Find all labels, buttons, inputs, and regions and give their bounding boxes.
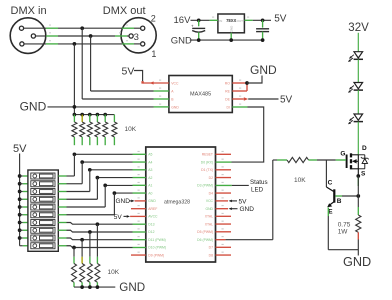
- U1 pin D12 stub: [133, 231, 146, 233]
- wire 5V to U3 VCC: [134, 71, 143, 82]
- svg-text:GND: GND: [119, 281, 145, 294]
- svg-text:1: 1: [151, 49, 156, 59]
- label 5V regulator output: [274, 14, 287, 25]
- transistor Q2 base bar: [333, 189, 335, 202]
- junction pulldown bus 3: [88, 113, 92, 117]
- junction D10 pulldown: [72, 246, 76, 250]
- svg-text:GND: GND: [116, 198, 131, 205]
- svg-text:LED: LED: [251, 187, 264, 194]
- wire gate stub: [336, 159, 346, 161]
- wire net A1 horizontal: [105, 184, 132, 186]
- wire net A0 horizontal: [114, 192, 132, 194]
- junction 5V rail row 1: [18, 174, 22, 178]
- wire DI to atmega D0: [232, 107, 264, 162]
- svg-text:C: C: [328, 179, 333, 186]
- wire node B drop (x=82.2): [81, 28, 83, 99]
- wire bottom GND bus: [74, 286, 115, 288]
- U1 pin label A5 left: [148, 153, 152, 157]
- wire regulator GND bus: [190, 39, 263, 41]
- junction 5V rail row 6: [18, 213, 22, 217]
- wire rail to S1 pin 8: [20, 229, 28, 231]
- LED D2: [348, 83, 363, 93]
- svg-text:AREF: AREF: [148, 207, 157, 211]
- svg-text:VCC: VCC: [171, 81, 179, 85]
- U1 pin label D0 (RX) right: [201, 160, 213, 164]
- junction A2: [96, 176, 100, 180]
- U1 pin A1 stub: [133, 184, 146, 186]
- U1 pin label VCC right: [206, 199, 214, 203]
- junction S node: [356, 174, 360, 178]
- U1 pin label A1 left: [148, 184, 152, 188]
- svg-text:RESET: RESET: [202, 153, 213, 157]
- U1 pin label D7 right: [209, 246, 213, 250]
- LED D1: [348, 52, 363, 62]
- svg-text:A3: A3: [148, 168, 152, 172]
- capacitor C1 polarized: [191, 20, 205, 40]
- U3 pin B stub: [154, 98, 169, 100]
- wire 32V to LED1: [357, 33, 359, 52]
- J1 pin 1: [19, 26, 23, 30]
- resistor RN2-1 10K: [95, 257, 100, 287]
- U1 pin label RESET right: [202, 153, 213, 157]
- U3 pin RE stub: [232, 90, 247, 92]
- wire base to source node: [342, 195, 358, 197]
- U1 pin label D8 right: [209, 253, 213, 257]
- svg-text:10K: 10K: [294, 177, 306, 184]
- LED D3: [348, 114, 363, 124]
- junction A3: [88, 168, 92, 172]
- resistor RN1-4 10K: [95, 115, 100, 146]
- U3 pin label RO: [225, 81, 230, 85]
- junction base/source: [356, 194, 360, 198]
- U1 pin label AREF left: [148, 207, 157, 211]
- IC U3 MAX485 body: [169, 76, 232, 113]
- resistor R3 stub bottom: [357, 232, 359, 239]
- svg-text:Status: Status: [250, 179, 268, 186]
- wire 16V to regulator IN: [191, 19, 210, 21]
- Q2 emitter with arrow: [327, 202, 334, 208]
- svg-text:OUT: OUT: [237, 19, 244, 23]
- S1 switch unit 6: [31, 212, 55, 218]
- svg-text:16V: 16V: [174, 15, 192, 26]
- wire net A5 drop to DIP: [73, 154, 75, 176]
- junction pulldown bus 4: [96, 113, 100, 117]
- wire DIP row 2 to drop: [67, 183, 83, 185]
- label 5V DE: [280, 94, 293, 105]
- svg-text:A5: A5: [148, 153, 152, 157]
- label GND bottom left: [119, 281, 145, 294]
- svg-text:2: 2: [151, 14, 156, 24]
- wire net A1 drop to DIP: [104, 185, 106, 207]
- resistor RN2-4 10K: [72, 257, 77, 287]
- wire S to resistor: [357, 176, 359, 215]
- U1 pin D0 stub: [216, 161, 232, 163]
- Q2 base stub: [335, 195, 342, 197]
- junction on pin2 row: [89, 34, 93, 38]
- Q2 emitter stub: [327, 208, 329, 217]
- wire RO node to GND label: [247, 76, 262, 84]
- label 16V: [174, 15, 192, 26]
- S1 right pin stub 2: [58, 183, 66, 185]
- junction pulldown bus 1: [73, 113, 77, 117]
- wire D10 drop: [73, 248, 75, 257]
- U1 pin D8 stub: [216, 254, 232, 256]
- U1 pin VCC stub: [216, 200, 229, 202]
- junction U2 GND bus: [229, 38, 233, 42]
- label 5V at U1 AVCC: [114, 214, 123, 221]
- U3 pin label A: [171, 89, 174, 93]
- S1 right pin stub 10: [58, 245, 66, 247]
- U3 pin label DI: [226, 105, 229, 109]
- junction bottom bus: [88, 285, 92, 289]
- svg-text:D: D: [362, 145, 367, 152]
- U1 pin D11 stub: [133, 239, 146, 241]
- svg-text:S: S: [361, 170, 366, 177]
- U3 pin GND stub: [154, 106, 169, 108]
- label GND MAX485: [250, 63, 277, 77]
- svg-text:GND: GND: [171, 35, 192, 46]
- svg-text:D1 (TX): D1 (TX): [201, 168, 213, 172]
- wire net A2 horizontal: [97, 177, 132, 179]
- S1 switch unit 3: [31, 189, 55, 195]
- wire rail to S1 pin 4: [20, 198, 28, 200]
- U1 pin D1 stub: [216, 169, 232, 171]
- U1 VCC arrow wire: [229, 198, 248, 205]
- U1 pin A0 stub: [133, 192, 146, 194]
- wire rail to S1 pin 7: [20, 222, 28, 224]
- wire D13 drop: [96, 224, 98, 257]
- wire GND bus to U3 GND: [48, 106, 154, 108]
- svg-text:DE: DE: [225, 97, 230, 101]
- svg-text:G: G: [340, 151, 345, 158]
- junction on pin1 row: [80, 26, 84, 30]
- S1 switch unit 5: [31, 204, 55, 210]
- U1 pin label A3 left: [148, 168, 152, 172]
- U1 pin D3 stub: [216, 184, 232, 186]
- resistor RN1-2 10K: [80, 115, 85, 146]
- wire DMX pin3 row (y=43.9): [24, 43, 141, 45]
- svg-text:5V: 5V: [122, 66, 135, 78]
- svg-text:D4: D4: [209, 191, 213, 195]
- wire rail to S1 pin 1: [20, 175, 28, 177]
- U1 pin XTAL1 stub: [216, 215, 232, 217]
- U1 pin label XTAL right: [205, 215, 213, 219]
- wire DIP row 3 to drop: [67, 191, 90, 193]
- wire DMX A to U3 pin A: [91, 90, 154, 92]
- connector J1 DMX in XLR body: [10, 18, 46, 54]
- U1 pin label D13 left: [148, 222, 154, 226]
- wire net A5 horizontal: [74, 153, 132, 155]
- U1 pin D9 stub: [131, 254, 146, 256]
- label G: [340, 151, 345, 158]
- junction 5V rail row 7: [18, 221, 22, 225]
- label Status: [250, 179, 268, 186]
- resistor RN2-2 10K: [87, 257, 92, 287]
- U1 pin D2 stub: [216, 177, 232, 179]
- svg-text:D11 (PWM): D11 (PWM): [148, 238, 165, 242]
- junction pulldown bus 5: [103, 113, 107, 117]
- wire DIP row 4 to drop: [67, 198, 98, 200]
- svg-text:GND: GND: [343, 255, 371, 269]
- svg-text:D5 (PWM): D5 (PWM): [197, 230, 213, 234]
- svg-text:GND: GND: [205, 207, 213, 211]
- svg-text:A0: A0: [148, 191, 152, 195]
- junction pulldown bus 2: [80, 113, 84, 117]
- label 1W: [338, 229, 349, 236]
- wire rail to S1 pin 3: [20, 191, 28, 193]
- S1 switch unit 9: [31, 235, 55, 241]
- S1 right pin stub 3: [58, 191, 66, 193]
- U1 pin D10 stub: [133, 247, 146, 249]
- U3 pin label DE: [225, 97, 230, 101]
- U1 pin A5 stub: [133, 153, 146, 155]
- Q1 source connect: [352, 161, 358, 176]
- svg-text:GND: GND: [230, 25, 234, 33]
- U1 pin label D9 (PWM) left: [148, 253, 164, 257]
- svg-text:A2: A2: [148, 176, 152, 180]
- junction D13 pulldown: [96, 222, 100, 226]
- resistor R3 0.75 body: [356, 215, 361, 232]
- S1 switch unit 1: [31, 173, 55, 179]
- junction 5V rail row 9: [18, 236, 22, 240]
- svg-text:B: B: [337, 198, 342, 205]
- wire RO-RE tie: [246, 83, 248, 91]
- wire resistor to GND: [357, 240, 359, 256]
- svg-text:A1: A1: [148, 184, 152, 188]
- junction on pin3 row: [73, 42, 77, 46]
- svg-text:5V: 5V: [13, 143, 27, 155]
- resistor R2 10K stub right: [309, 159, 318, 161]
- wire GND drop (x=74.4): [73, 44, 75, 115]
- label GND bottom right: [343, 255, 371, 269]
- svg-text:10K: 10K: [108, 269, 120, 276]
- wire DIP row 10 to atmega D10: [67, 246, 133, 248]
- U1 pin A3 stub: [133, 169, 146, 171]
- J1 pin 3: [20, 42, 24, 46]
- IC U1 atmega328 body: [146, 147, 216, 262]
- U1 pin label A4 left: [148, 160, 152, 164]
- capacitor C2: [256, 20, 269, 40]
- label 32V: [348, 22, 369, 34]
- junction RO node: [245, 81, 249, 85]
- svg-text:1W: 1W: [338, 229, 349, 236]
- U1 GND pin arrow wire: [129, 200, 146, 203]
- U1 pin A4 stub: [133, 161, 146, 163]
- U3 pin DE stub with arrow: [232, 97, 248, 100]
- label 10K network1: [125, 126, 137, 133]
- svg-text:XTAL: XTAL: [205, 222, 213, 226]
- label GND at U1: [116, 198, 131, 205]
- label DMX in: [11, 5, 47, 17]
- wire DE to 5V label: [248, 98, 278, 100]
- U1 AREF stub: [131, 208, 146, 210]
- wire net A3 drop to DIP: [89, 170, 91, 192]
- junction 5V rail row 3: [18, 190, 22, 194]
- svg-text:5V: 5V: [280, 94, 293, 105]
- U1 pin label D4 right: [209, 191, 213, 195]
- junction C2/GND bus: [261, 38, 265, 42]
- svg-text:DMX in: DMX in: [11, 5, 47, 17]
- resistor RN1-3 10K: [87, 115, 92, 146]
- U1 pin label A2 left: [148, 176, 152, 180]
- wire 10K to gate: [317, 159, 336, 161]
- S1 right pin stub 1: [58, 175, 66, 177]
- Q1 channel bar: [350, 153, 352, 169]
- junction A1: [103, 184, 107, 188]
- wire net A0 drop to DIP: [113, 193, 115, 215]
- U1 pin D5 stub: [216, 231, 232, 233]
- junction GND bus x=74.4: [73, 105, 77, 109]
- S1 switch unit 7: [31, 220, 55, 226]
- J1 pin 2: [31, 34, 35, 38]
- wire LED3 to MOSFET drain: [357, 122, 359, 155]
- U1 pin label A0 left: [148, 191, 152, 195]
- svg-text:DMX out: DMX out: [103, 5, 146, 17]
- S1 switch unit 10: [31, 243, 55, 249]
- U1 pin D7 stub: [216, 246, 232, 248]
- U1 pin D13 stub: [133, 223, 146, 225]
- label S: [361, 170, 366, 177]
- label E: [328, 209, 333, 216]
- wire rail to S1 pin 5: [20, 206, 28, 208]
- svg-text:D12: D12: [148, 230, 154, 234]
- J2 pin 1: [141, 42, 145, 46]
- S1 switch unit 2: [31, 181, 55, 187]
- J2 pin 2: [141, 26, 145, 30]
- U1 pin label D1 (TX) right: [201, 168, 213, 172]
- label LED: [251, 187, 264, 194]
- U3 pin A stub: [154, 90, 169, 92]
- transistor Q1 MOSFET gate bar: [346, 155, 348, 169]
- wire node A drop (x=90.6): [90, 36, 92, 91]
- U3 pin label RE: [225, 89, 230, 93]
- U1 pin D6 stub: [216, 239, 226, 241]
- svg-text:D7: D7: [209, 246, 213, 250]
- wire D3 to status LED label: [232, 184, 249, 186]
- wire DMX B to U3 pin B: [82, 98, 153, 100]
- resistor R2 10K body: [287, 157, 309, 162]
- wire regulator OUT to 5V: [253, 19, 271, 21]
- S1 right pin stub 9: [58, 237, 66, 239]
- svg-text:78XX: 78XX: [226, 18, 236, 23]
- junction A0: [113, 191, 117, 195]
- U1 pin label GND left: [148, 199, 156, 203]
- DIP switch S1 body: [28, 170, 58, 251]
- resistor RN1-6 10K: [112, 115, 117, 146]
- Q1 body diode: [358, 155, 368, 169]
- junction 5V rail row 2: [18, 182, 22, 186]
- junction bottom bus: [96, 285, 100, 289]
- U2 pin OUT stub: [244, 19, 252, 21]
- svg-text:+: +: [191, 23, 194, 28]
- svg-text:GND: GND: [20, 99, 47, 113]
- U2 pin IN stub: [210, 19, 218, 21]
- Q1 source arrow: [352, 159, 358, 163]
- svg-text:GND: GND: [240, 206, 255, 213]
- label 10K network2: [108, 269, 120, 276]
- svg-text:VCC: VCC: [206, 199, 214, 203]
- label 10K gate: [294, 177, 306, 184]
- wire D11 drop: [81, 240, 83, 257]
- svg-text:RO: RO: [225, 81, 230, 85]
- U1 pin D4 stub: [216, 192, 232, 194]
- svg-text:D2: D2: [209, 176, 213, 180]
- U1 pin label GND right: [205, 207, 213, 211]
- S1 right pin stub 6: [58, 214, 66, 216]
- junction D11 pulldown: [80, 238, 84, 242]
- svg-text:D6 (PWM): D6 (PWM): [197, 238, 213, 242]
- svg-text:D8: D8: [209, 253, 213, 257]
- label 5V MAX485 supply: [122, 66, 135, 78]
- S1 right pin stub 8: [58, 229, 66, 231]
- S1 switch unit 4: [31, 196, 55, 202]
- U1 pin XTAL2 stub: [216, 223, 232, 225]
- U3 pin RO stub: [232, 82, 247, 84]
- svg-text:D13: D13: [148, 222, 154, 226]
- svg-text:A4: A4: [148, 160, 152, 164]
- label J2 pin number 1: [151, 49, 156, 59]
- S1 right pin stub 4: [58, 198, 66, 200]
- U1 pin label AVCC left: [148, 215, 158, 219]
- U1 pin label D5 (PWM) right: [197, 230, 213, 234]
- svg-text:GND: GND: [171, 105, 179, 109]
- wire emitter down: [328, 216, 358, 250]
- junction bottom bus: [80, 285, 84, 289]
- U3 pin label GND: [171, 105, 179, 109]
- svg-text:AVCC: AVCC: [148, 215, 158, 219]
- svg-text:IN: IN: [219, 19, 222, 23]
- wire DMX pin1 row (y=28.2): [24, 27, 141, 29]
- U2 pin GND stub: [230, 33, 232, 40]
- svg-text:D10 (PWM): D10 (PWM): [148, 246, 166, 250]
- wire LED2-LED3: [357, 90, 359, 114]
- wire rail to S1 pin 9: [20, 237, 28, 239]
- U1 pin label D11 (PWM) left: [148, 238, 165, 242]
- label C: [328, 179, 333, 186]
- wire LED1-LED2: [357, 59, 359, 82]
- resistor RN1-1 10K: [72, 115, 77, 146]
- U1 pin A2 stub: [133, 177, 146, 179]
- wire DIP row 8 to atmega D12: [67, 230, 133, 232]
- U1 pin label D3 (PWM) right: [197, 184, 213, 188]
- wire net A4 drop to DIP: [81, 162, 83, 184]
- label D: [362, 145, 367, 152]
- resistor R2 10K stub left: [277, 159, 287, 161]
- U3 pin DI stub: [232, 106, 247, 108]
- wire DIP row 7 to atmega D13: [67, 223, 133, 225]
- junction D12 pulldown: [88, 230, 92, 234]
- wire gate junction to collector: [326, 160, 333, 191]
- label GND regulator: [171, 35, 192, 46]
- svg-text:32V: 32V: [348, 22, 369, 34]
- svg-text:RE: RE: [225, 89, 230, 93]
- U1 pin label D10 (PWM) left: [148, 246, 166, 250]
- Q1 drain connect: [352, 155, 358, 162]
- wire DIP row 9 to atmega D11: [67, 238, 133, 240]
- connector J2 DMX out XLR body: [121, 18, 156, 53]
- resistor RN2-3 10K: [80, 257, 85, 287]
- U1 pin label D6 (PWM) right: [197, 238, 213, 242]
- junction 5V rail row 8: [18, 228, 22, 232]
- label GND left: [20, 99, 47, 113]
- U3 pin label B: [171, 97, 174, 101]
- label B: [337, 198, 342, 205]
- svg-text:MAX485: MAX485: [190, 91, 211, 97]
- wire net A2 drop to DIP: [96, 178, 98, 200]
- U3 pin VCC stub with arrow: [141, 81, 169, 84]
- U3 pin label VCC: [171, 81, 179, 85]
- U1 pin label D12 left: [148, 230, 154, 234]
